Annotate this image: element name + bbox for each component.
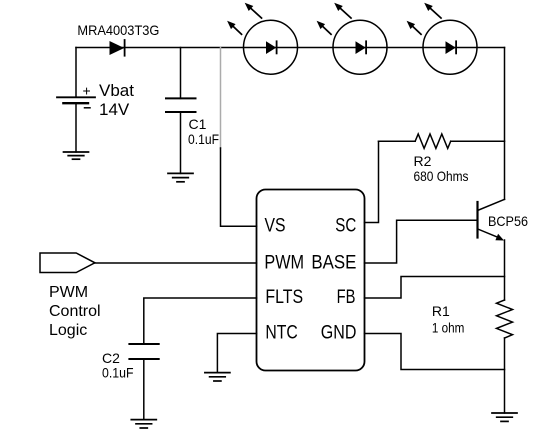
wire GND [365, 334, 505, 370]
diode MRA4003T3G [110, 40, 125, 56]
svg-text:R1: R1 [432, 303, 450, 319]
wire emitter rail [504, 240, 506, 300]
ground C2 [131, 420, 156, 428]
label battery minus [85, 107, 91, 109]
svg-text:MRA4003T3G: MRA4003T3G [77, 22, 159, 38]
svg-text:FLTS: FLTS [265, 287, 303, 308]
ground C1 [168, 173, 193, 181]
LED D1 [227, 3, 297, 74]
svg-text:680 Ohms: 680 Ohms [414, 168, 469, 184]
capacitor C1 [166, 98, 196, 112]
ground right [492, 413, 517, 421]
svg-text:BASE: BASE [311, 253, 356, 274]
resistor R2 [379, 134, 505, 148]
svg-text:GND: GND [321, 323, 357, 344]
svg-text:SC: SC [335, 216, 356, 237]
ground NTC [205, 373, 230, 381]
input tag PWM [40, 253, 95, 273]
LED D2 [317, 3, 387, 74]
svg-text:+: + [83, 83, 91, 99]
wire C1 bottom [180, 112, 182, 173]
wire R1 to ground [504, 338, 506, 413]
label PWM Control Logic [49, 284, 101, 339]
wire PWM [95, 262, 257, 264]
svg-text:Vbat: Vbat [99, 81, 134, 100]
svg-text:R2: R2 [414, 153, 432, 169]
svg-text:PWM: PWM [264, 253, 304, 274]
wire NTC [217, 334, 256, 373]
wire right rail to collector [504, 48, 506, 200]
svg-text:C2: C2 [102, 350, 120, 366]
svg-text:0.1uF: 0.1uF [188, 131, 219, 147]
op-amp U1 (controller IC body) [257, 190, 365, 371]
svg-text:VS: VS [265, 216, 286, 237]
svg-text:C1: C1 [189, 116, 207, 132]
svg-text:1 ohm: 1 ohm [432, 320, 465, 336]
capacitor C2 [129, 344, 158, 359]
resistor R1 [497, 300, 513, 338]
svg-text:NTC: NTC [265, 323, 297, 344]
battery Vbat [57, 48, 95, 153]
wire VS [221, 148, 257, 226]
transistor Q1 BCP56 [478, 199, 505, 240]
svg-text:14V: 14V [99, 100, 130, 119]
wire top rail [76, 47, 505, 49]
ground battery [64, 152, 89, 159]
wire SC [365, 141, 379, 222]
wire VS upper (gray) [220, 48, 222, 149]
svg-text:Control: Control [49, 303, 101, 320]
wire BASE [365, 220, 477, 263]
svg-text:PWM: PWM [49, 284, 88, 301]
LED D3 [407, 3, 477, 74]
svg-text:FB: FB [337, 287, 356, 308]
svg-text:Logic: Logic [49, 322, 87, 339]
wire C2 bottom [143, 359, 145, 420]
svg-text:BCP56: BCP56 [488, 213, 528, 229]
wire FB [365, 277, 505, 299]
svg-text:0.1uF: 0.1uF [102, 365, 134, 381]
wire C1 top [180, 48, 182, 99]
wire FLTS [144, 298, 257, 344]
